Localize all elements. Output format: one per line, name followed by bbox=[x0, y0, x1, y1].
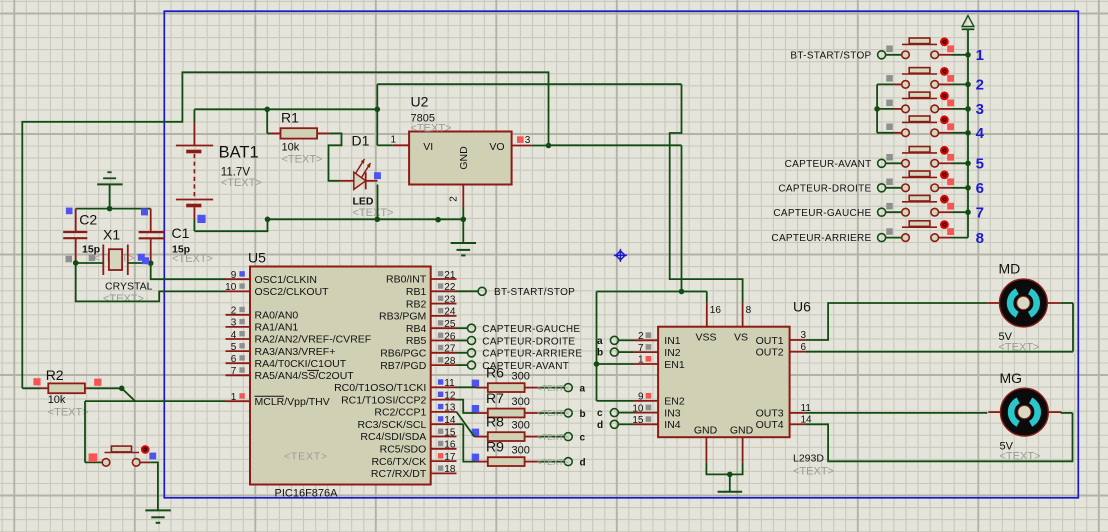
svg-text:24: 24 bbox=[444, 307, 456, 318]
svg-text:RC3/SCK/SCL: RC3/SCK/SCL bbox=[357, 419, 426, 431]
svg-text:12: 12 bbox=[444, 390, 456, 401]
svg-text:c: c bbox=[580, 433, 586, 444]
svg-text:RA4/T0CKI/C1OUT: RA4/T0CKI/C1OUT bbox=[255, 358, 347, 370]
svg-text:VSS: VSS bbox=[695, 332, 716, 344]
svg-text:2: 2 bbox=[976, 77, 984, 94]
svg-text:OUT2: OUT2 bbox=[756, 347, 784, 359]
svg-text:d: d bbox=[580, 458, 586, 469]
svg-text:RA0/AN0: RA0/AN0 bbox=[255, 310, 299, 322]
svg-text:RB4: RB4 bbox=[406, 323, 427, 335]
svg-text:VS: VS bbox=[734, 332, 748, 344]
svg-text:23: 23 bbox=[444, 294, 456, 305]
svg-text:<TEXT>: <TEXT> bbox=[537, 432, 569, 442]
svg-text:VI: VI bbox=[423, 141, 433, 153]
svg-text:1: 1 bbox=[976, 47, 984, 64]
svg-text:3: 3 bbox=[525, 135, 531, 146]
svg-text:26: 26 bbox=[444, 331, 456, 342]
svg-text:300: 300 bbox=[512, 396, 530, 408]
svg-text:OUT3: OUT3 bbox=[756, 408, 784, 420]
svg-text:RA3/AN3/VREF+: RA3/AN3/VREF+ bbox=[255, 346, 336, 358]
svg-text:<TEXT>: <TEXT> bbox=[284, 451, 328, 463]
svg-text:RB6/PGC: RB6/PGC bbox=[380, 348, 427, 360]
svg-text:10: 10 bbox=[632, 403, 644, 414]
svg-text:8: 8 bbox=[746, 305, 752, 316]
svg-text:R9: R9 bbox=[486, 439, 504, 455]
svg-text:GND: GND bbox=[694, 424, 718, 436]
svg-text:BT-START/STOP: BT-START/STOP bbox=[494, 287, 575, 298]
svg-text:RB7/PGD: RB7/PGD bbox=[380, 360, 427, 372]
svg-text:L293D: L293D bbox=[793, 453, 824, 465]
svg-text:CAPTEUR-GAUCHE: CAPTEUR-GAUCHE bbox=[773, 208, 871, 219]
svg-text:10: 10 bbox=[225, 282, 237, 293]
svg-text:9: 9 bbox=[231, 270, 237, 281]
svg-text:b: b bbox=[580, 409, 586, 420]
svg-text:16: 16 bbox=[444, 440, 456, 451]
svg-text:<TEXT>: <TEXT> bbox=[48, 407, 89, 419]
svg-text:b: b bbox=[597, 348, 603, 359]
svg-text:IN4: IN4 bbox=[664, 419, 681, 431]
svg-text:5: 5 bbox=[976, 156, 984, 173]
svg-text:EN1: EN1 bbox=[664, 359, 685, 371]
svg-text:<TEXT>: <TEXT> bbox=[411, 122, 452, 134]
svg-text:OUT1: OUT1 bbox=[756, 335, 784, 347]
svg-text:R1: R1 bbox=[281, 110, 299, 126]
svg-text:MD: MD bbox=[999, 261, 1021, 277]
svg-text:2: 2 bbox=[448, 196, 459, 202]
svg-text:7: 7 bbox=[231, 366, 237, 377]
svg-text:25: 25 bbox=[444, 319, 456, 330]
svg-text:3: 3 bbox=[231, 318, 237, 329]
svg-text:GND: GND bbox=[730, 424, 754, 436]
svg-text:18: 18 bbox=[444, 464, 456, 475]
svg-text:1: 1 bbox=[638, 355, 644, 366]
svg-text:CAPTEUR-DROITE: CAPTEUR-DROITE bbox=[778, 183, 871, 194]
svg-text:300: 300 bbox=[512, 445, 530, 457]
svg-text:300: 300 bbox=[512, 420, 530, 432]
svg-text:RB5: RB5 bbox=[406, 335, 427, 347]
svg-text:5: 5 bbox=[231, 342, 237, 353]
svg-text:a: a bbox=[597, 336, 603, 347]
svg-text:OSC2/CLKOUT: OSC2/CLKOUT bbox=[255, 286, 330, 298]
svg-text:d: d bbox=[597, 420, 603, 431]
svg-text:21: 21 bbox=[444, 270, 456, 281]
svg-text:OUT4: OUT4 bbox=[756, 419, 784, 431]
svg-text:PIC16F876A: PIC16F876A bbox=[275, 488, 339, 500]
svg-text:GND: GND bbox=[458, 146, 470, 170]
svg-text:R7: R7 bbox=[486, 390, 504, 406]
svg-text:RA1/AN1: RA1/AN1 bbox=[255, 322, 299, 334]
svg-text:BAT1: BAT1 bbox=[219, 143, 259, 161]
svg-text:15: 15 bbox=[632, 415, 644, 426]
svg-text:<TEXT>: <TEXT> bbox=[537, 383, 569, 393]
svg-text:<TEXT>: <TEXT> bbox=[537, 457, 569, 467]
svg-text:300: 300 bbox=[512, 371, 530, 383]
svg-text:1: 1 bbox=[391, 134, 397, 145]
svg-text:MCLR/Vpp/THV: MCLR/Vpp/THV bbox=[255, 396, 330, 408]
svg-text:<TEXT>: <TEXT> bbox=[999, 341, 1040, 353]
svg-text:RC5/SDO: RC5/SDO bbox=[380, 444, 427, 456]
svg-text:BT-START/STOP: BT-START/STOP bbox=[790, 50, 871, 61]
svg-text:14: 14 bbox=[444, 415, 456, 426]
svg-text:9: 9 bbox=[638, 392, 644, 403]
svg-text:IN2: IN2 bbox=[664, 347, 681, 359]
svg-text:RA5/AN4/SS/C2OUT: RA5/AN4/SS/C2OUT bbox=[255, 370, 355, 382]
svg-text:4: 4 bbox=[231, 330, 237, 341]
svg-text:4: 4 bbox=[976, 125, 985, 142]
svg-text:R8: R8 bbox=[486, 414, 504, 430]
svg-text:6: 6 bbox=[976, 180, 984, 197]
svg-text:10k: 10k bbox=[48, 394, 66, 406]
svg-text:1: 1 bbox=[231, 392, 237, 403]
svg-text:RC2/CCP1: RC2/CCP1 bbox=[374, 407, 426, 419]
svg-text:RB1: RB1 bbox=[406, 286, 427, 298]
svg-text:<TEXT>: <TEXT> bbox=[537, 408, 569, 418]
svg-text:15: 15 bbox=[444, 427, 456, 438]
svg-text:2: 2 bbox=[231, 306, 237, 317]
svg-text:CAPTEUR-GAUCHE: CAPTEUR-GAUCHE bbox=[482, 324, 580, 335]
svg-text:U2: U2 bbox=[411, 94, 429, 110]
svg-text:a: a bbox=[580, 384, 586, 395]
svg-text:17: 17 bbox=[444, 452, 456, 463]
svg-text:IN1: IN1 bbox=[664, 335, 681, 347]
svg-text:U6: U6 bbox=[793, 299, 811, 315]
svg-text:16: 16 bbox=[710, 305, 722, 316]
svg-text:R2: R2 bbox=[46, 367, 64, 383]
svg-text:C1: C1 bbox=[172, 225, 190, 241]
svg-text:8: 8 bbox=[976, 230, 984, 247]
svg-text:CAPTEUR-DROITE: CAPTEUR-DROITE bbox=[482, 336, 575, 347]
svg-text:RC4/SDI/SDA: RC4/SDI/SDA bbox=[360, 431, 426, 443]
svg-text:RC0/T1OSO/T1CKI: RC0/T1OSO/T1CKI bbox=[334, 382, 426, 394]
svg-text:R6: R6 bbox=[486, 365, 504, 381]
svg-text:C2: C2 bbox=[79, 212, 97, 228]
svg-text:10k: 10k bbox=[282, 142, 300, 154]
svg-text:7: 7 bbox=[638, 343, 644, 354]
svg-text:MG: MG bbox=[1000, 370, 1023, 386]
svg-text:RB0/INT: RB0/INT bbox=[386, 274, 427, 286]
svg-text:2: 2 bbox=[638, 331, 644, 342]
svg-text:VO: VO bbox=[489, 141, 504, 153]
svg-text:X1: X1 bbox=[103, 227, 120, 243]
svg-text:11: 11 bbox=[444, 378, 455, 389]
svg-text:<TEXT>: <TEXT> bbox=[221, 177, 262, 189]
svg-text:EN2: EN2 bbox=[664, 396, 685, 408]
svg-text:OSC1/CLKIN: OSC1/CLKIN bbox=[255, 274, 317, 286]
svg-text:CAPTEUR-AVANT: CAPTEUR-AVANT bbox=[785, 159, 872, 170]
svg-text:RB3/PGM: RB3/PGM bbox=[379, 311, 426, 323]
svg-text:CAPTEUR-ARRIERE: CAPTEUR-ARRIERE bbox=[771, 233, 871, 244]
svg-text:U5: U5 bbox=[248, 250, 266, 266]
svg-text:RB2: RB2 bbox=[406, 298, 427, 310]
svg-text:13: 13 bbox=[444, 403, 456, 414]
svg-text:22: 22 bbox=[444, 282, 456, 293]
svg-text:<TEXT>: <TEXT> bbox=[793, 466, 834, 478]
svg-text:c: c bbox=[597, 408, 603, 419]
svg-text:D1: D1 bbox=[352, 133, 370, 149]
svg-text:<TEXT>: <TEXT> bbox=[172, 253, 213, 265]
svg-text:28: 28 bbox=[444, 356, 456, 367]
svg-text:7: 7 bbox=[976, 204, 984, 221]
svg-text:IN3: IN3 bbox=[664, 407, 681, 419]
svg-text:RC7/RX/DT: RC7/RX/DT bbox=[371, 468, 427, 480]
svg-text:6: 6 bbox=[231, 354, 237, 365]
svg-text:<TEXT>: <TEXT> bbox=[1000, 450, 1041, 462]
svg-text:RA2/AN2/VREF-/CVREF: RA2/AN2/VREF-/CVREF bbox=[255, 334, 372, 346]
svg-text:CRYSTAL: CRYSTAL bbox=[105, 281, 153, 293]
svg-text:LED: LED bbox=[353, 196, 374, 208]
svg-text:<TEXT>: <TEXT> bbox=[353, 207, 394, 219]
svg-text:3: 3 bbox=[976, 101, 984, 118]
svg-text:27: 27 bbox=[444, 344, 456, 355]
svg-text:<TEXT>: <TEXT> bbox=[103, 293, 144, 305]
svg-text:RC1/T1OSI/CCP2: RC1/T1OSI/CCP2 bbox=[341, 394, 426, 406]
svg-text:<TEXT>: <TEXT> bbox=[282, 154, 323, 166]
svg-text:CAPTEUR-ARRIERE: CAPTEUR-ARRIERE bbox=[482, 349, 582, 360]
svg-text:RC6/TX/CK: RC6/TX/CK bbox=[371, 456, 426, 468]
